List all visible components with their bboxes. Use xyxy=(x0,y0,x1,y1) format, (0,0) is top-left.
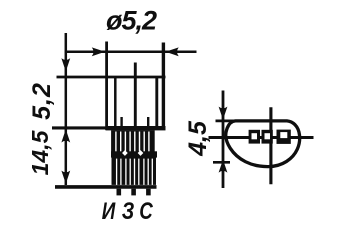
svg-text:И: И xyxy=(102,198,116,225)
svg-text:С: С xyxy=(139,198,153,225)
svg-text:5,2: 5,2 xyxy=(28,82,56,120)
svg-text:14,5: 14,5 xyxy=(27,129,53,175)
svg-text:ø5,2: ø5,2 xyxy=(106,6,157,36)
svg-text:З: З xyxy=(122,198,135,225)
svg-text:4,5: 4,5 xyxy=(184,120,212,157)
